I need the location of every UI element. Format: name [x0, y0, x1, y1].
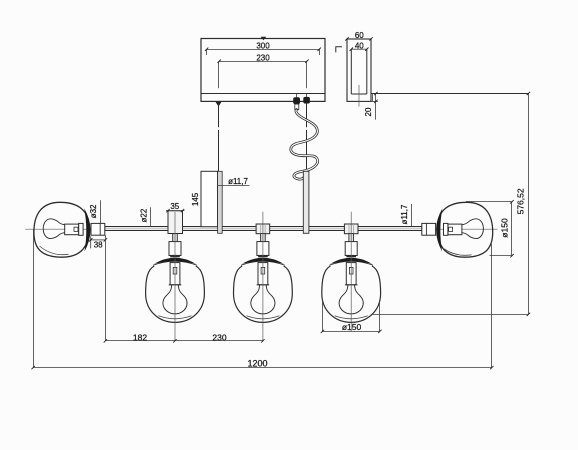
dim 182 230 line [104, 235, 265, 342]
horizontal bar [105, 227, 422, 231]
svg-text:576,52: 576,52 [515, 188, 525, 214]
axis centerline right [436, 228, 498, 230]
svg-text:ø150: ø150 [499, 218, 509, 238]
left rod housing [201, 171, 218, 226]
step below side view [372, 94, 374, 102]
dim 1200 [31, 229, 493, 369]
svg-text:38: 38 [94, 241, 103, 250]
dim 40 [350, 48, 369, 51]
svg-text:182: 182 [133, 332, 147, 342]
left suspension wire [218, 105, 220, 128]
cord connector A [296, 94, 298, 98]
pendant 1 body [146, 234, 205, 323]
side view centerline [358, 85, 360, 107]
svg-text:145: 145 [191, 192, 200, 206]
svg-text:ø11,7: ø11,7 [228, 177, 248, 186]
svg-text:230: 230 [256, 53, 270, 62]
axis centerline left [25, 228, 91, 230]
pendant 2 centerline [262, 212, 264, 341]
dim 20 [371, 92, 378, 120]
right globe assembly (mirrored) [422, 202, 493, 257]
dim o11,7 left [217, 184, 250, 186]
pendant 3 block [344, 224, 358, 234]
svg-text:35: 35 [170, 202, 179, 211]
right globe inner arc [444, 249, 472, 256]
dim 60 [345, 37, 372, 40]
svg-text:ø32: ø32 [89, 204, 98, 218]
pendant 3 centerline [350, 212, 352, 332]
section bracket mark [336, 47, 342, 53]
dim 38 [89, 236, 107, 248]
pendant 2 block [256, 224, 270, 234]
straight cable right [306, 104, 308, 128]
ceiling line [371, 93, 528, 95]
left globe inner arc [40, 246, 69, 255]
canopy front view outer box [201, 39, 325, 102]
left rod [218, 171, 223, 233]
dim o11,7 right [411, 204, 413, 227]
pendant 1 centerline [174, 212, 176, 341]
spiral cord [291, 110, 318, 180]
svg-text:ø150: ø150 [342, 322, 362, 332]
dim 230 canopy line [218, 60, 309, 89]
pendant 2 body [234, 234, 293, 323]
svg-text:60: 60 [355, 31, 364, 40]
dim o150 right globe [466, 200, 514, 257]
dim o22 [150, 207, 152, 226]
right rod [303, 171, 309, 233]
canopy bottom plate line [201, 93, 325, 95]
left suspension wire arrow [216, 102, 222, 107]
left globe assembly [34, 202, 105, 257]
dim 576,52 [527, 92, 530, 316]
svg-text:300: 300 [256, 42, 270, 51]
dim 300 line [205, 48, 321, 55]
canopy side view outer box [347, 39, 371, 101]
cord connector B [306, 94, 308, 98]
dim 35 [166, 209, 185, 212]
svg-text:20: 20 [364, 107, 373, 116]
dim o32 [100, 200, 102, 223]
link line bottom right [372, 314, 529, 316]
pendant 3 body [322, 234, 381, 323]
pendant 1 block 35 [168, 211, 183, 234]
svg-text:1200: 1200 [247, 358, 267, 368]
canopy top center tick [261, 37, 267, 40]
svg-text:ø11,7: ø11,7 [400, 204, 409, 224]
canopy side inner rect [351, 49, 367, 94]
svg-text:40: 40 [355, 41, 364, 50]
dim o150 pendant3 [321, 300, 382, 333]
svg-text:ø22: ø22 [140, 208, 149, 222]
svg-text:230: 230 [212, 332, 226, 342]
